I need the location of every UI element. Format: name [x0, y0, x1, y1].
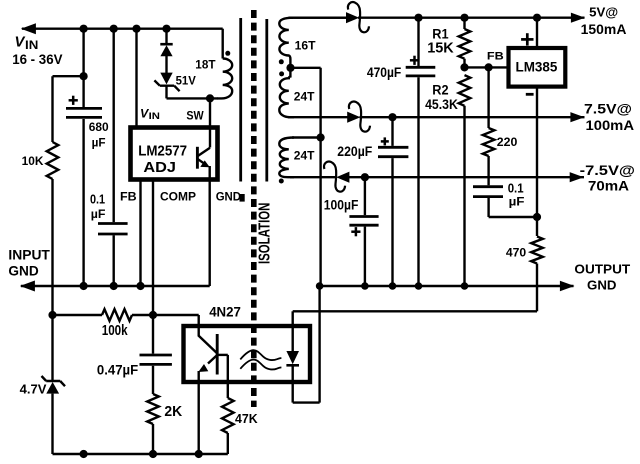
wire 680uF-to-10K branch: [53, 75, 84, 77]
terminal OUTPUT GND arrow: [560, 281, 575, 292]
svg-text:0.1: 0.1: [508, 180, 524, 195]
svg-text:ISOLATION: ISOLATION: [256, 203, 273, 264]
terminal -7.5V arrow: [570, 172, 584, 182]
label OUTPUT GND: [574, 262, 630, 293]
wire OUTPUT GND rail: [320, 285, 574, 287]
capacitor 0.47uF: [97, 315, 172, 394]
pin label GND: [216, 189, 241, 203]
diode clamp: [160, 44, 172, 56]
label 7.5V output: [584, 102, 634, 134]
svg-text:24T: 24T: [294, 148, 315, 162]
junction top rail / VIN pin: [132, 25, 140, 33]
pin label minus: [526, 93, 534, 96]
svg-text:470: 470: [506, 246, 526, 260]
junction OUT GND / 470uF: [415, 282, 423, 290]
wire 16T top lead: [289, 17, 348, 19]
junction COMP/0.47uF node: [149, 311, 157, 319]
svg-text:4.7V: 4.7V: [20, 382, 47, 397]
svg-text:16T: 16T: [295, 39, 317, 53]
wire LM385 minus pin: [536, 87, 538, 236]
svg-text:FB: FB: [120, 189, 137, 203]
wire INPUT GND rail: [21, 285, 210, 287]
isolation dashed line: [251, 10, 257, 407]
svg-text:0.47µF: 0.47µF: [97, 362, 138, 377]
resistor 470: [506, 237, 543, 265]
transformer core line right: [265, 19, 268, 182]
svg-text:4N27: 4N27: [209, 305, 241, 320]
svg-text:2K: 2K: [164, 404, 182, 420]
wire tap to vertical: [291, 68, 321, 286]
transformer secondary 24T upper winding: [279, 68, 315, 117]
light arrows in 4N27: [240, 350, 281, 369]
diode D5 output -7.5V: [324, 162, 349, 192]
diode D4 output 7.5V: [347, 102, 370, 132]
wire clamp chain: [165, 29, 167, 99]
wire 680uF vertical: [82, 29, 84, 286]
terminal 7.5V arrow: [570, 112, 584, 122]
capacitor 0.1uF input: [90, 191, 128, 234]
wire LED anode to 470: [293, 264, 537, 311]
label -7.5V output: [580, 163, 635, 193]
wire emitter down: [197, 371, 199, 454]
phase dot 16T: [279, 59, 284, 64]
junction 10K/100k/zener node: [48, 311, 56, 319]
junction tap line / 24T lower: [317, 133, 325, 141]
junction 5V / R1: [460, 14, 468, 22]
phase dot 24T upper: [279, 71, 284, 76]
svg-text:SW: SW: [186, 110, 203, 122]
capacitor 220uF: [337, 117, 408, 286]
junction FB / 220: [485, 63, 493, 71]
junction 0.1uF / LM385 minus: [533, 213, 541, 221]
wire LM385 plus pin: [536, 18, 538, 48]
junction top rail / 0.1uF branch: [110, 25, 118, 33]
junction 5V / LM385: [533, 14, 541, 22]
junction 680uF branch: [80, 72, 88, 80]
resistor R2 45.3K: [425, 75, 470, 286]
label 5V output: [581, 5, 627, 37]
svg-text:µF: µF: [92, 136, 106, 150]
phase dot primary: [225, 51, 230, 56]
diode D3 output 5V: [346, 2, 369, 32]
svg-text:GND: GND: [587, 278, 617, 293]
pin label plus: [521, 33, 533, 45]
terminal INPUT GND arrow: [20, 281, 35, 292]
wire LED loop bottom: [293, 286, 320, 403]
svg-text:7.5V@: 7.5V@: [584, 102, 632, 117]
wire SW pin: [209, 98, 211, 147]
wire 7.5V rail: [288, 116, 585, 118]
pin label FB: [120, 189, 137, 203]
pin label SW: [186, 110, 203, 122]
junction -7.5V / 100uF: [361, 173, 369, 181]
wire 0.1uF input vertical: [112, 29, 114, 286]
svg-text:10K: 10K: [22, 154, 44, 168]
svg-text:OUTPUT: OUTPUT: [574, 262, 630, 277]
capacitor 680uF: [66, 96, 109, 150]
resistor 10K: [22, 76, 59, 315]
wire 5V rail: [289, 17, 585, 19]
resistor 220: [483, 67, 518, 185]
isolation mark blob: [240, 194, 245, 202]
svg-text:GND: GND: [216, 189, 241, 203]
transformer secondary 16T winding: [279, 18, 316, 68]
resistor 47K: [222, 398, 258, 433]
wire collector feed: [153, 315, 199, 337]
svg-text:100µF: 100µF: [324, 197, 359, 212]
capacitor 100uF: [324, 177, 379, 286]
svg-text:COMP: COMP: [160, 189, 196, 203]
junction 5V / 470uF: [414, 14, 422, 22]
svg-text:V: V: [15, 35, 26, 51]
svg-text:47K: 47K: [235, 411, 258, 426]
wire base to 47K: [217, 355, 228, 398]
wire primary bottom: [167, 97, 219, 99]
junction bottom rail / 2K: [149, 450, 157, 458]
label VIN: [12, 35, 62, 67]
wire COMP pin: [152, 180, 154, 316]
junction top rail / clamp diode: [162, 25, 170, 33]
svg-text:18T: 18T: [195, 59, 216, 72]
wire -7.5V rail: [290, 176, 584, 178]
zener diode 4.7V: [20, 315, 65, 454]
resistor 100k: [53, 309, 154, 339]
svg-text:100k: 100k: [102, 323, 129, 339]
wire VIN top rail: [22, 29, 223, 59]
svg-text:µF: µF: [509, 195, 525, 209]
capacitor 0.1uF output: [473, 180, 537, 217]
svg-text:LM2577: LM2577: [138, 143, 187, 160]
svg-text:5V@: 5V@: [589, 5, 618, 20]
svg-text:FB: FB: [487, 51, 504, 63]
label INPUT GND: [8, 248, 50, 279]
svg-text:IN: IN: [25, 38, 38, 52]
phase dot 24T lower: [279, 179, 284, 184]
svg-text:R2: R2: [432, 83, 448, 98]
svg-text:470µF: 470µF: [367, 65, 401, 80]
transformer secondary 24T lower winding: [279, 138, 315, 178]
svg-text:16 - 36V: 16 - 36V: [12, 52, 62, 67]
zener diode 51V: [154, 73, 196, 92]
LED in 4N27: [286, 311, 299, 402]
svg-text:51V: 51V: [176, 75, 196, 88]
junction bottom rail / emitter: [195, 450, 203, 458]
terminal VIN arrow: [21, 23, 36, 34]
junction OUT GND / 100uF: [361, 282, 369, 290]
svg-text:0.1: 0.1: [90, 191, 105, 206]
svg-text:R1: R1: [432, 26, 449, 41]
junction SW / primary: [206, 94, 214, 102]
svg-text:100mA: 100mA: [586, 118, 635, 133]
op-amp U2 LM385 box: [509, 48, 566, 87]
op-amp U1 LM2577 box: [131, 128, 218, 180]
wire bottom rail: [53, 433, 228, 454]
transformer core line left: [239, 18, 242, 182]
junction OUT GND / R2: [461, 282, 469, 290]
junction FB / R1R2: [460, 63, 468, 71]
wire 24T lower tap: [292, 136, 321, 138]
svg-text:GND: GND: [8, 263, 39, 278]
svg-text:IN: IN: [149, 111, 160, 122]
junction top rail / 680uF branch: [80, 25, 88, 33]
junction secondary center tap: [286, 64, 294, 72]
svg-text:µF: µF: [91, 207, 106, 221]
label ISOLATION: [256, 203, 273, 264]
pin label COMP: [160, 189, 196, 203]
transformer primary 18T winding: [195, 59, 232, 99]
junction OUT GND / LED loop: [316, 282, 324, 290]
pin label VIN pin: [140, 107, 160, 122]
svg-text:680: 680: [89, 120, 109, 134]
pin label FB LM385: [487, 51, 504, 63]
op-amp U3 4N27 box: [184, 305, 311, 383]
svg-text:220µF: 220µF: [337, 144, 372, 159]
svg-text:-7.5V@: -7.5V@: [580, 163, 635, 178]
resistor R1 15K: [427, 18, 470, 68]
wire VIN pin: [135, 29, 137, 128]
wire FB pin: [139, 180, 141, 287]
wire FB node: [465, 66, 508, 68]
svg-text:150mA: 150mA: [581, 22, 627, 37]
junction INPUT GND / FB: [136, 282, 144, 290]
svg-text:INPUT: INPUT: [8, 248, 50, 263]
svg-text:ADJ: ADJ: [143, 159, 176, 176]
svg-text:15K: 15K: [427, 41, 454, 57]
junction INPUT GND / 680uF: [80, 282, 88, 290]
terminal 5V arrow: [571, 13, 585, 23]
resistor 2K: [147, 394, 182, 454]
junction INPUT GND / 0.1uF: [110, 282, 118, 290]
svg-text:220: 220: [497, 135, 518, 149]
svg-text:70mA: 70mA: [588, 178, 629, 193]
svg-text:LM385: LM385: [516, 58, 558, 74]
svg-text:45.3K: 45.3K: [425, 97, 458, 112]
junction 7.5V / 220uF: [388, 113, 396, 121]
transistor Q1 in LM2577: [197, 147, 210, 169]
transistor Q2 phototransistor: [198, 334, 217, 375]
wire GND pin: [208, 166, 210, 286]
junction OUT GND / 220uF: [389, 282, 397, 290]
junction bottom rail / 680uF line: [80, 450, 88, 458]
svg-text:24T: 24T: [294, 89, 315, 103]
capacitor 470uF: [367, 18, 435, 286]
